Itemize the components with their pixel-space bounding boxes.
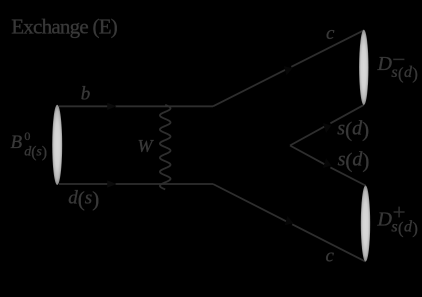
svg-text:s(d): s(d) [337, 118, 369, 142]
svg-text:0: 0 [24, 129, 30, 143]
svg-text:Exchange (E): Exchange (E) [11, 14, 118, 38]
svg-text:b: b [81, 83, 91, 104]
svg-text:c: c [326, 23, 335, 44]
svg-text:d(s): d(s) [68, 187, 99, 211]
svg-text:W: W [138, 136, 155, 156]
svg-text:D: D [377, 53, 393, 75]
svg-text:D: D [377, 209, 393, 231]
svg-text:B: B [11, 132, 23, 153]
svg-text:c: c [326, 246, 335, 267]
svg-text:s(d): s(d) [391, 64, 418, 83]
svg-text:s(d): s(d) [338, 149, 370, 173]
svg-text:d(s): d(s) [24, 144, 47, 161]
svg-text:s(d): s(d) [391, 219, 418, 238]
